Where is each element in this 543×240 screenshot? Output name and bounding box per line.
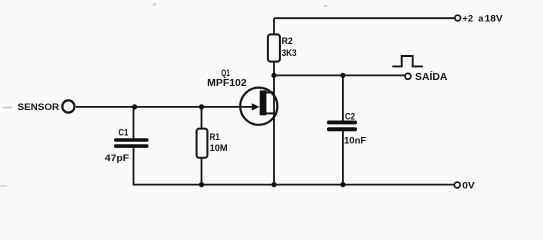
svg-text:C1: C1: [118, 128, 128, 138]
svg-text:R1: R1: [210, 132, 221, 143]
svg-text:MPF102: MPF102: [207, 78, 247, 89]
svg-text:SAÍDA: SAÍDA: [415, 70, 447, 83]
svg-text:10M: 10M: [210, 143, 228, 154]
svg-text:R2: R2: [282, 36, 293, 47]
svg-text:C2: C2: [345, 112, 355, 122]
svg-text:2: 2: [468, 14, 473, 24]
svg-text:47pF: 47pF: [105, 153, 130, 164]
svg-text:a: a: [478, 14, 484, 24]
svg-text:18V: 18V: [485, 14, 504, 24]
svg-text:0V: 0V: [462, 180, 475, 190]
svg-text:SENSOR: SENSOR: [18, 102, 60, 112]
svg-text:10nF: 10nF: [344, 136, 366, 147]
svg-text:Q1: Q1: [221, 68, 230, 78]
svg-text:3K3: 3K3: [282, 48, 297, 59]
